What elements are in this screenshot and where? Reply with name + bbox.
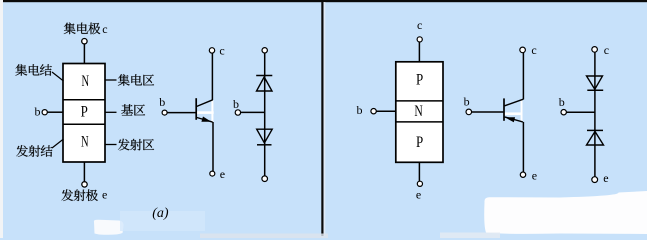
diode D1: triangle pointing up	[257, 77, 273, 91]
transistor PNP: white strip at fan right edge	[521, 99, 523, 121]
diode model NPN: base wire	[241, 111, 265, 113]
svg-text:b: b	[464, 95, 470, 109]
diode model NPN: collector terminal circle	[262, 48, 267, 53]
wire box to emitter terminal	[83, 162, 85, 182]
faint light rectangle watermark remains	[120, 211, 205, 231]
transistor PNP: emitter arrowhead pointing inward	[505, 117, 515, 122]
tick line box to 发射区	[105, 144, 117, 146]
transistor NPN: collector vertical wire	[211, 53, 213, 100]
PNP: emitter terminal circle	[417, 181, 422, 186]
wire collector terminal to box	[83, 44, 85, 64]
svg-text:N: N	[414, 103, 423, 120]
svg-text:P: P	[416, 71, 423, 88]
diode model PNP: collector terminal circle	[592, 47, 598, 53]
pointer line 集电结 to box	[52, 72, 64, 81]
svg-text:P: P	[416, 134, 423, 151]
PNP: base terminal circle	[371, 109, 376, 114]
white erased blob bottom-left	[94, 220, 124, 235]
transistor NPN: base terminal circle	[162, 110, 167, 115]
transistor PNP: white band right of bar	[505, 112, 521, 115]
top black border	[3, 0, 647, 2]
svg-text:b: b	[35, 105, 41, 119]
transistor NPN: white band right of bar	[197, 111, 214, 114]
transistor NPN: base wire	[167, 112, 196, 114]
transistor NPN: emitter diagonal	[197, 118, 213, 123]
PNP: base wire	[376, 110, 396, 112]
faint strip under blob	[440, 233, 500, 239]
transistor NPN: emitter terminal circle	[210, 171, 215, 176]
svg-text:e: e	[603, 171, 608, 185]
transistor NPN: collector terminal circle	[209, 48, 214, 53]
svg-text:c: c	[102, 22, 107, 36]
junction line P/N (emitter junction)	[63, 123, 105, 125]
tick line box to 基区	[105, 111, 117, 113]
pointer line 发射结 to box	[52, 139, 64, 148]
diode model PNP: emitter terminal circle	[592, 177, 598, 183]
diode D3 (C-B junction): triangle pointing down	[587, 76, 603, 89]
svg-text:c: c	[219, 43, 224, 57]
diode model NPN: emitter terminal circle	[262, 176, 268, 182]
collector terminal node circle	[82, 39, 87, 44]
PNP: collector terminal circle	[417, 37, 422, 42]
transistor PNP: collector terminal circle	[520, 47, 526, 53]
base terminal node circle	[42, 110, 47, 115]
svg-text:N: N	[81, 134, 89, 151]
label 基区 (base region)	[121, 104, 145, 115]
wire base terminal to box	[47, 111, 63, 113]
diode D2 (B-E junction): triangle pointing down	[257, 129, 273, 143]
transistor PNP: base bar	[503, 98, 505, 120]
white erased blob bottom-right	[484, 191, 647, 234]
label 发射区 (emitter region)	[118, 139, 154, 151]
transistor PNP: emitter diagonal	[505, 117, 523, 122]
diode D4: triangle pointing up	[587, 132, 604, 146]
svg-text:(a): (a)	[152, 206, 169, 221]
transistor NPN: emitter vertical wire	[212, 122, 214, 171]
svg-text:c: c	[417, 18, 422, 32]
emitter terminal node circle	[82, 182, 87, 187]
svg-text:e: e	[102, 188, 107, 202]
diode model NPN: base terminal circle	[235, 110, 240, 115]
diode D4 (E-B junction): cathode bar	[587, 129, 603, 131]
svg-text:e: e	[220, 167, 225, 181]
diode model NPN: vertical wire	[264, 53, 266, 176]
PNP: wire box to emitter terminal	[418, 162, 420, 181]
label 集电区 (collector region)	[118, 74, 154, 86]
NPN region box outline	[63, 64, 105, 163]
diode D1 (B-C junction): cathode bar	[256, 75, 272, 77]
diode model PNP: base terminal circle	[561, 110, 566, 115]
label 发射结 (emitter junction)	[16, 145, 53, 157]
transistor PNP: base terminal circle	[466, 109, 472, 115]
transistor NPN: emitter arrowhead pointing outward	[201, 117, 211, 122]
diode model PNP: vertical wire	[594, 52, 596, 177]
transistor NPN: base bar	[195, 98, 197, 120]
svg-text:c: c	[531, 43, 536, 57]
diode model PNP: base wire	[566, 111, 595, 113]
diode D3: cathode bar	[587, 89, 603, 91]
transistor PNP: emitter terminal circle	[520, 172, 525, 177]
PNP junction line P/N	[396, 100, 443, 102]
svg-text:b: b	[357, 103, 363, 117]
diode D2: cathode bar	[257, 144, 272, 146]
transistor NPN: white strip at fan right edge	[211, 100, 213, 121]
svg-text:P: P	[81, 103, 88, 120]
svg-text:c: c	[604, 43, 609, 57]
transistor PNP: base wire	[472, 111, 504, 113]
panel divider line	[321, 2, 323, 236]
tick line box to 集电区	[105, 79, 117, 81]
PNP region box outline	[396, 62, 443, 163]
svg-text:b: b	[233, 97, 239, 111]
label 集电极 (collector electrode)	[64, 23, 100, 35]
svg-text:e: e	[416, 187, 421, 201]
transistor PNP: collector vertical wire	[522, 53, 524, 100]
PNP: wire terminal to box	[418, 42, 420, 62]
svg-text:b: b	[559, 95, 565, 109]
left white page edge	[0, 0, 3, 238]
transistor PNP: collector diagonal	[505, 99, 524, 106]
svg-text:e: e	[532, 168, 537, 182]
transistor NPN: collector diagonal	[197, 100, 213, 107]
svg-text:N: N	[82, 73, 90, 90]
junction line N/P (collector junction)	[63, 99, 105, 101]
label 发射极 (emitter electrode)	[61, 189, 97, 201]
label 集电结 (collector junction)	[15, 64, 52, 76]
transistor PNP: emitter vertical wire	[522, 122, 524, 172]
PNP junction line N/P	[396, 121, 443, 123]
svg-text:b: b	[159, 95, 165, 109]
